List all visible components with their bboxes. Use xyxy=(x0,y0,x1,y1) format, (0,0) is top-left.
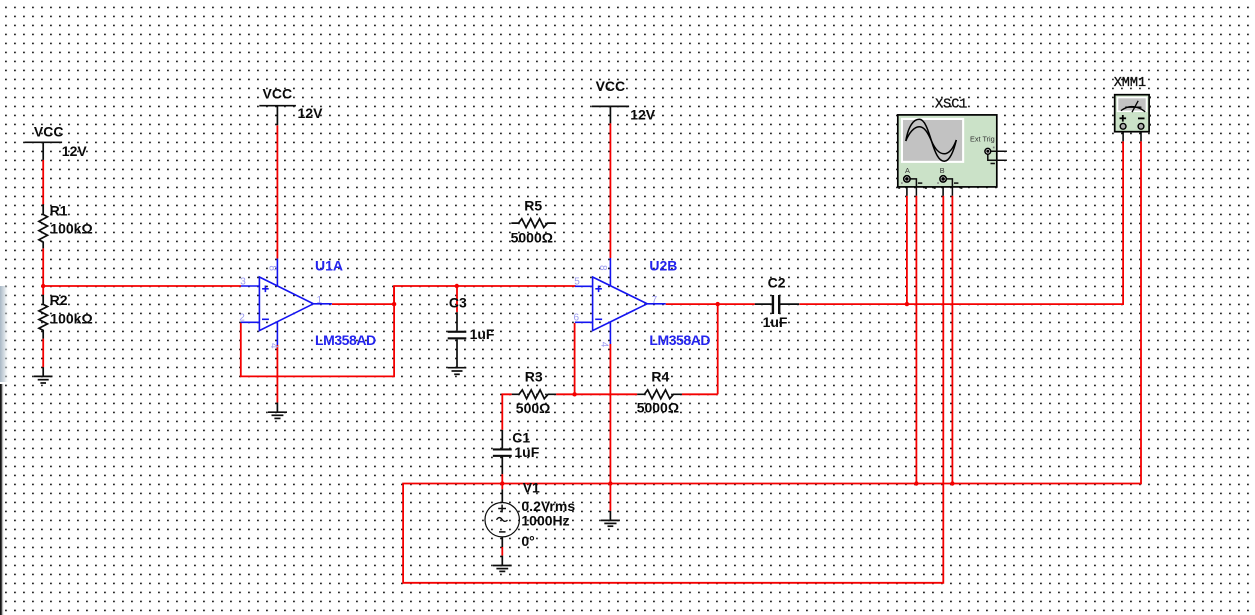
svg-text:Ext Trig: Ext Trig xyxy=(970,134,995,143)
svg-text:C2: C2 xyxy=(768,275,786,291)
svg-text:XSC1: XSC1 xyxy=(935,97,967,112)
svg-text:12V: 12V xyxy=(62,143,88,159)
svg-text:12V: 12V xyxy=(298,105,324,121)
svg-text:4: 4 xyxy=(598,342,609,348)
svg-text:8: 8 xyxy=(266,265,277,271)
svg-text:VCC: VCC xyxy=(596,78,626,94)
svg-text:U2B: U2B xyxy=(649,258,677,274)
svg-text:1uF: 1uF xyxy=(470,326,495,342)
svg-text:5000Ω: 5000Ω xyxy=(637,400,679,416)
svg-text:C1: C1 xyxy=(512,430,530,446)
svg-text:C3: C3 xyxy=(449,295,467,311)
svg-text:B: B xyxy=(940,166,945,175)
svg-text:LM358AD: LM358AD xyxy=(315,332,376,348)
svg-text:1: 1 xyxy=(317,295,323,306)
svg-text:4: 4 xyxy=(268,343,279,349)
svg-text:R4: R4 xyxy=(651,369,669,385)
svg-text:A: A xyxy=(905,166,910,175)
svg-text:XMM1: XMM1 xyxy=(1114,76,1146,91)
svg-text:1000Hz: 1000Hz xyxy=(521,513,569,529)
svg-text:1uF: 1uF xyxy=(514,444,539,460)
svg-text:7: 7 xyxy=(652,295,658,306)
svg-text:5: 5 xyxy=(574,277,580,288)
svg-text:8: 8 xyxy=(597,265,608,271)
svg-text:R2: R2 xyxy=(50,292,68,308)
svg-text:2: 2 xyxy=(239,312,245,323)
svg-text:1uF: 1uF xyxy=(763,314,788,330)
svg-text:V1: V1 xyxy=(523,479,540,495)
svg-text:3: 3 xyxy=(240,277,246,288)
svg-text:VCC: VCC xyxy=(263,86,293,102)
svg-text:R5: R5 xyxy=(524,197,542,213)
svg-text:R1: R1 xyxy=(50,202,68,218)
svg-text:5000Ω: 5000Ω xyxy=(511,230,553,246)
svg-text:R3: R3 xyxy=(525,369,543,385)
svg-text:LM358AD: LM358AD xyxy=(649,332,710,348)
svg-text:U1A: U1A xyxy=(315,258,343,274)
svg-text:500Ω: 500Ω xyxy=(516,400,551,416)
svg-text:6: 6 xyxy=(574,312,580,323)
svg-text:VCC: VCC xyxy=(34,124,64,140)
svg-text:100kΩ: 100kΩ xyxy=(50,310,92,326)
svg-text:12V: 12V xyxy=(630,107,656,123)
svg-text:100kΩ: 100kΩ xyxy=(50,221,92,237)
svg-text:0°: 0° xyxy=(521,533,534,549)
